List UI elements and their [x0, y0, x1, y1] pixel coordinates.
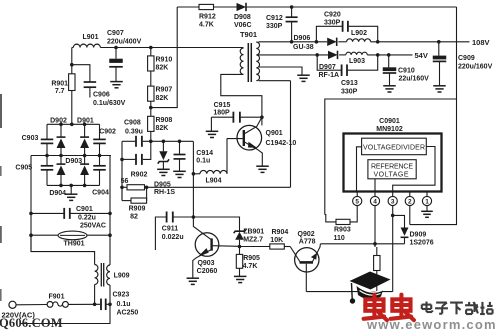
IC block reference voltage [368, 160, 416, 179]
capacitor C903 [22, 124, 54, 155]
svg-text:F901: F901 [49, 293, 65, 300]
svg-text:R902: R902 [131, 172, 148, 179]
wire secondary tap3 to ground [259, 67, 303, 75]
svg-text:D901: D901 [77, 117, 94, 124]
svg-text:C911: C911 [162, 226, 178, 233]
wire pin5 shown above [356, 196, 358, 198]
wire main B+ line [72, 47, 244, 49]
ground C915 [206, 117, 219, 137]
svg-text:108V: 108V [472, 38, 490, 47]
capacitor C902 [93, 124, 116, 155]
svg-text:22u/160V: 22u/160V [399, 76, 430, 83]
svg-text:0.1u: 0.1u [196, 158, 210, 165]
svg-text:5: 5 [355, 199, 359, 206]
capacitor C910 [383, 55, 429, 86]
wire right border to pin2 [410, 7, 457, 225]
capacitor C907 [107, 30, 142, 81]
diode D902 [50, 117, 67, 155]
svg-text:82K: 82K [156, 65, 169, 72]
svg-text:330P: 330P [341, 89, 358, 96]
ground secondary [297, 75, 310, 81]
wire rail1 to L904 [192, 141, 196, 217]
inductor L903 [346, 52, 368, 65]
pin 4 of U C0901 [370, 192, 379, 206]
wire AC to choke [31, 235, 95, 264]
svg-text:L901: L901 [83, 34, 99, 41]
capacitor C912 [266, 7, 298, 42]
svg-text:R908: R908 [156, 117, 173, 124]
resistor R904 [270, 229, 289, 249]
resistor R912 [199, 4, 216, 28]
svg-text:C913: C913 [341, 80, 358, 87]
svg-text:56: 56 [121, 178, 129, 185]
svg-text:C923: C923 [113, 292, 130, 299]
pin 1 of U C0901 [422, 192, 431, 206]
wire secondary tap1 [259, 40, 328, 44]
watermark chongchong red characters [364, 295, 414, 320]
svg-text:330P: 330P [266, 23, 283, 30]
wire zener to R904 [240, 246, 270, 248]
ground D905 [157, 169, 170, 175]
wire D908 to corner [247, 5, 457, 9]
svg-text:C904: C904 [92, 190, 109, 197]
svg-text:180P: 180P [213, 110, 230, 117]
wire L904 to Q901 base [226, 139, 228, 174]
capacitor C908b [136, 154, 142, 165]
svg-text:R912: R912 [199, 14, 216, 21]
svg-text:L904: L904 [206, 178, 222, 185]
pin 2 of U C0901 [405, 192, 414, 206]
svg-text:C910: C910 [398, 68, 415, 75]
svg-text:C2060: C2060 [197, 268, 218, 275]
svg-text:VOLTAGEDIVIDER: VOLTAGEDIVIDER [363, 145, 425, 152]
svg-text:C915: C915 [214, 102, 231, 109]
resistor R909 [122, 187, 147, 220]
wire bridge top rail [47, 123, 100, 127]
node junction R907-R908 [149, 101, 153, 116]
svg-text:C914: C914 [196, 150, 213, 157]
capacitor C908a [124, 120, 143, 147]
diode D907 [319, 51, 340, 79]
wire secondary tap bottom [259, 80, 291, 82]
ground C907 [110, 82, 123, 88]
IC C0901 outline [344, 118, 442, 192]
transistor Q902 [290, 231, 320, 292]
svg-text:C903: C903 [22, 135, 39, 142]
capacitor C923 [101, 292, 138, 317]
svg-text:R904: R904 [272, 229, 289, 236]
svg-text:Q606.COM: Q606.COM [0, 316, 63, 330]
svg-text:Q901: Q901 [266, 130, 283, 137]
svg-text:D909: D909 [410, 232, 427, 239]
wire L909 left to fuse line [93, 285, 97, 307]
watermark dianzi xiazaizhan characters [422, 302, 493, 315]
svg-text:C901: C901 [76, 206, 93, 213]
svg-text:54V: 54V [415, 51, 428, 60]
svg-text:2: 2 [408, 199, 412, 206]
svg-text:7.7: 7.7 [55, 88, 65, 95]
svg-text:D908: D908 [234, 14, 251, 21]
capacitor C913 [317, 55, 378, 96]
svg-text:220u/400V: 220u/400V [107, 39, 142, 46]
svg-text:82: 82 [130, 214, 138, 221]
wire secondary tap2 [259, 53, 329, 57]
ground C910 [383, 86, 396, 92]
wire L903 to 54V [367, 53, 412, 57]
wire bridge bottom rail [47, 184, 100, 188]
svg-text:VOLTAGE: VOLTAGE [374, 172, 409, 179]
diode D905 [154, 141, 175, 196]
transistor Q901 [227, 117, 297, 166]
pin 3 of U C0901 [388, 192, 397, 206]
svg-text:4: 4 [373, 199, 377, 206]
capacitor C906 [72, 65, 126, 107]
resistor R906 below pin4 [374, 244, 380, 292]
svg-text:110: 110 [334, 235, 345, 242]
svg-text:C912: C912 [266, 15, 283, 22]
svg-text:A778: A778 [299, 238, 316, 245]
inductor L901 [73, 34, 100, 48]
ground bridge [65, 185, 78, 200]
svg-text:L909: L909 [114, 273, 130, 280]
diode D908 [234, 3, 252, 29]
node junction R910 [149, 46, 153, 50]
IC block voltage divider [362, 138, 427, 155]
wire Q902 emitter line [320, 242, 404, 246]
wire pin4 down [374, 206, 376, 244]
svg-text:1: 1 [425, 199, 429, 206]
wire pin1 to ground [426, 206, 428, 211]
wire snubber rail2 [120, 141, 151, 161]
svg-text:0.1u: 0.1u [117, 301, 131, 308]
diode D906 [293, 35, 337, 51]
svg-text:C902: C902 [99, 128, 116, 135]
transformer T901 secondary [256, 42, 259, 81]
svg-text:R907: R907 [156, 87, 173, 94]
svg-text:4.7K: 4.7K [243, 263, 258, 270]
resistor R901 [51, 74, 75, 95]
resistor R905 [236, 247, 260, 277]
diode D909 [393, 215, 434, 246]
svg-text:Q903: Q903 [197, 260, 214, 267]
transistor Q903 [193, 217, 240, 278]
ground C909 [433, 86, 446, 92]
terminal 220V input [9, 301, 53, 308]
inductor L902 [347, 30, 371, 42]
capacitor C904 [92, 156, 109, 197]
svg-text:0.022u: 0.022u [162, 234, 184, 241]
capacitor C905 [15, 156, 53, 186]
wire R912 to D908 [214, 6, 237, 8]
wire box around IC [325, 99, 457, 215]
svg-text:D903: D903 [65, 158, 82, 165]
resistor R910 [148, 48, 173, 72]
svg-text:82K: 82K [156, 95, 169, 102]
svg-text:MN9102: MN9102 [376, 126, 403, 133]
svg-text:C920: C920 [324, 12, 341, 19]
node junction C907 [114, 46, 118, 50]
svg-text:D906: D906 [294, 35, 311, 42]
svg-text:D904: D904 [49, 190, 66, 197]
svg-text:C908: C908 [124, 120, 141, 127]
wire L902 to 108V [371, 40, 470, 44]
ground R905 [234, 276, 247, 282]
svg-text:250VAC: 250VAC [80, 223, 106, 230]
svg-text:R910: R910 [156, 57, 173, 64]
svg-text:C0901: C0901 [379, 118, 400, 125]
node collector junction [260, 115, 264, 119]
svg-text:10K: 10K [270, 237, 283, 244]
diode D903 [57, 156, 83, 186]
svg-text:RH-1S: RH-1S [154, 189, 175, 196]
capacitor C911 [162, 212, 194, 242]
svg-text:R903: R903 [334, 227, 351, 234]
svg-text:0.39u: 0.39u [125, 129, 143, 136]
wire collector node to Q901 [261, 117, 263, 125]
wire R901 to bridge [71, 91, 73, 125]
svg-text:AC250: AC250 [117, 310, 139, 317]
svg-text:RF-1A: RF-1A [319, 72, 340, 79]
thermistor TH901 [31, 231, 110, 247]
svg-text:0.1u/630V: 0.1u/630V [93, 100, 126, 107]
wire junction to R912 riser [151, 7, 177, 108]
svg-text:D902: D902 [50, 117, 67, 124]
wire primary bottom to collector node [221, 74, 262, 117]
svg-text:L902: L902 [351, 30, 367, 37]
zener ZB901 [234, 229, 265, 247]
svg-text:0.22u: 0.22u [78, 215, 96, 222]
scan artifacts left edge [0, 94, 2, 301]
capacitor C915 [211, 102, 262, 123]
svg-text:C906: C906 [93, 92, 110, 99]
watermark Q606.COM [0, 316, 63, 330]
label 220V(AC) [2, 311, 36, 320]
capacitor C901 [31, 206, 110, 230]
ground Q903 emitter [187, 278, 200, 284]
transformer T901 core [248, 43, 251, 82]
ground C914 [173, 171, 186, 177]
ground pin1 [421, 211, 433, 217]
wire box left to R903 [325, 215, 336, 222]
svg-text:220u/160V: 220u/160V [458, 64, 493, 71]
wire R904 to Q902 [284, 246, 290, 248]
wire aux top line [177, 6, 199, 8]
svg-text:C909: C909 [458, 55, 475, 62]
wire pin2 down [409, 206, 411, 225]
wire L909 right down [21, 285, 111, 324]
capacitor C920 [316, 12, 377, 42]
svg-text:GU-38: GU-38 [293, 44, 314, 51]
wire snubber rail1 [122, 140, 193, 144]
capacitor C914 [174, 141, 214, 171]
svg-text:3: 3 [391, 199, 395, 206]
svg-text:R909: R909 [129, 206, 146, 213]
transformer L909 [95, 263, 130, 287]
svg-text:Q902: Q902 [298, 231, 315, 238]
wire snubber left rail [120, 141, 124, 200]
wire C911 left stub [155, 217, 166, 250]
watermark www.eeworm.com [366, 317, 497, 332]
diode D904 [49, 156, 89, 198]
wire AC left rail [29, 156, 33, 252]
svg-text:www.eeworm.com: www.eeworm.com [366, 317, 497, 331]
svg-text:1S2076: 1S2076 [410, 240, 434, 247]
svg-text:C905: C905 [15, 164, 32, 171]
resistor R902 [121, 172, 291, 190]
resistor R903 [334, 219, 351, 242]
wire D906 to L902 [338, 41, 346, 43]
wire feedback riser [290, 81, 292, 188]
svg-text:V06C: V06C [234, 22, 252, 29]
wire pin3 down [391, 206, 395, 292]
svg-text:C1942-10: C1942-10 [266, 140, 297, 147]
svg-text:L903: L903 [349, 58, 365, 65]
resistor R908 [148, 116, 173, 141]
svg-text:T901: T901 [240, 30, 257, 39]
inductor L904 [193, 170, 227, 184]
svg-text:ZB901: ZB901 [243, 229, 264, 236]
wire R903 to pin5 [350, 206, 357, 222]
wire fuse to C923 [68, 303, 100, 305]
node C911 junction [192, 215, 196, 219]
svg-text:4.7K: 4.7K [199, 22, 214, 29]
label 54V [415, 51, 428, 60]
wire AC right rail [108, 156, 112, 266]
IC internal wires [357, 147, 436, 192]
svg-text:R901: R901 [51, 80, 68, 87]
node base line junction [238, 245, 242, 249]
diode D901 [77, 117, 94, 155]
svg-text:C907: C907 [107, 30, 124, 37]
svg-text:330P: 330P [324, 20, 341, 27]
wire bottom return [306, 291, 392, 293]
wire C911 line to zener drop [193, 217, 239, 231]
svg-text:MZ2.7: MZ2.7 [243, 237, 263, 244]
wire to R901 [70, 48, 74, 74]
wire bridge mid rail [31, 154, 111, 158]
svg-text:TH901: TH901 [63, 241, 84, 248]
svg-text:82K: 82K [156, 125, 169, 132]
transformer T901 primary [240, 30, 257, 74]
wire D907 to L903 [339, 54, 346, 56]
svg-text:R905: R905 [243, 255, 260, 262]
capacitor C909 [433, 42, 493, 86]
pin 5 of U C0901 [353, 192, 362, 206]
resistor R907 [148, 71, 173, 102]
ground Q901 emitter [256, 166, 269, 172]
fuse F901 [49, 293, 69, 307]
label 108V [472, 38, 490, 47]
svg-text:REFERENCE: REFERENCE [371, 163, 413, 170]
watermark graduation cap logo [350, 272, 391, 304]
